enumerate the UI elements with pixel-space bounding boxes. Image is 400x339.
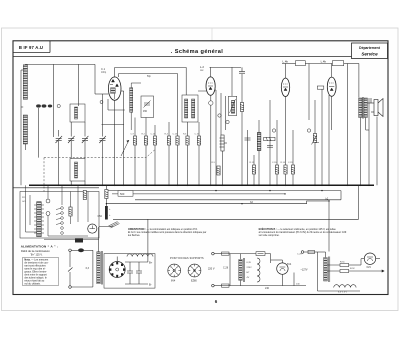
contact C b — [61, 212, 64, 215]
L1c coil — [75, 162, 78, 178]
V4 electrodes — [329, 83, 334, 91]
tone resistor R24 — [317, 86, 324, 89]
resistor R30 — [83, 191, 86, 200]
terminal E1 — [69, 249, 72, 252]
L2a top lead — [131, 83, 141, 130]
filter choke CH1 — [127, 254, 153, 257]
wire top of IF stage — [210, 67, 243, 185]
wire x329 down to PSU — [328, 201, 330, 252]
label box on heater bus — [118, 191, 133, 197]
svg-text:R.52: R.52 — [350, 268, 355, 270]
fuse F4 — [308, 250, 315, 253]
switch feed wires — [26, 185, 100, 239]
Nota paragraph — [24, 259, 49, 286]
rectifier tube V6 — [277, 263, 288, 274]
cap C41 — [46, 199, 50, 203]
rectifier socket U1 — [109, 262, 125, 278]
padder box with trimmers "450" — [141, 96, 154, 118]
contact C e — [61, 227, 64, 230]
T5 core — [329, 257, 330, 283]
V3 electrodes — [283, 84, 288, 91]
svg-text:Service: Service — [361, 51, 378, 56]
mains wires — [214, 254, 294, 286]
tone pot R26 with arrow — [312, 134, 320, 145]
resistor R3 column — [153, 125, 156, 185]
fold mark top center — [211, 28, 213, 41]
oscillator coil L2a — [130, 88, 133, 113]
terminal E2 — [69, 286, 72, 289]
terminal P2 — [212, 284, 215, 287]
resistor R20 horizontal — [264, 137, 275, 140]
svg-text:nul du châssis.: nul du châssis. — [24, 283, 40, 286]
dial cord to switch — [43, 158, 45, 192]
title block: model box "B IF 97 A.U" — [49, 41, 51, 53]
stub labels — [296, 254, 302, 286]
lamp wires — [70, 250, 93, 287]
T4 winding labels — [247, 262, 253, 279]
drawing frame border — [13, 41, 388, 295]
heater winding L6 — [334, 285, 356, 288]
AVC bus — [135, 199, 341, 201]
switch-to-eye connector — [75, 239, 83, 243]
T2 trim arrow — [230, 99, 236, 113]
trimmer CV3 — [57, 104, 60, 107]
trimmer CV2 — [42, 104, 47, 107]
svg-text:. Schéma général: . Schéma général — [171, 49, 223, 55]
terminal P1 — [212, 252, 215, 255]
pin marker m1 — [218, 114, 221, 117]
IF transformer T1 box — [182, 95, 198, 122]
resistor R10 — [240, 103, 243, 112]
svg-text:sur tube comprimé.: sur tube comprimé. — [259, 234, 280, 237]
resistor R15 column — [252, 155, 255, 185]
wire x270 — [269, 100, 271, 185]
contact C c — [61, 217, 64, 220]
ORIENTATION note text — [128, 228, 207, 237]
switch wafer bar S1 — [34, 202, 44, 237]
svg-text:450: 450 — [143, 110, 148, 113]
output transformer T3 — [359, 97, 368, 119]
transformer core lines — [101, 251, 102, 285]
switch arrow on gang line — [121, 140, 129, 156]
heater bus 1 — [107, 190, 341, 192]
svg-text:6V4: 6V4 — [367, 266, 372, 269]
V2 pin circle marker — [209, 101, 213, 105]
thermistor — [99, 222, 120, 229]
magic eye tube V5 — [88, 224, 97, 233]
coil inside box — [75, 107, 78, 119]
power transformer T4 primary — [239, 259, 242, 280]
gang coupling dashed line — [44, 150, 155, 158]
contact C f — [61, 232, 64, 235]
B+ wires — [117, 219, 148, 284]
resistor R41 — [340, 270, 349, 273]
ground symbol at tube1 — [100, 101, 103, 104]
T2 coil — [231, 101, 234, 114]
heater bus drop — [340, 191, 342, 200]
tuning gang CV-C — [82, 136, 89, 143]
svg-text:PO: PO — [22, 197, 25, 199]
V2 electrodes — [208, 83, 213, 90]
loudspeaker LS — [367, 98, 383, 117]
resistor R2 column — [144, 118, 147, 186]
autotransformer winding — [97, 252, 100, 284]
resistor R13 column — [217, 166, 220, 175]
pin marker m3 — [307, 129, 310, 132]
ferrite antenna coil L1 — [23, 65, 27, 144]
rectifier section box — [104, 254, 155, 289]
socket view S-B — [188, 264, 201, 277]
wires caps to bus — [59, 94, 103, 185]
rectifier tube V7 — [364, 253, 375, 264]
svg-text:Débit de la combinaison: Débit de la combinaison — [21, 249, 50, 253]
V2 cathode wire — [211, 90, 226, 185]
AF line top — [282, 64, 359, 79]
resistor R18 column — [291, 130, 294, 185]
resistor R1 column — [133, 118, 136, 186]
wires to rectifier V7 — [349, 259, 380, 271]
pin marker m4 — [226, 120, 229, 123]
trimmer in padder box — [143, 101, 151, 114]
detector coil L3 (dark) — [257, 133, 261, 151]
svg-text:C54: C54 — [98, 215, 103, 218]
127V wires — [304, 252, 360, 291]
resistor R17 column — [284, 96, 287, 185]
svg-text:6,3 V 4 V: 6,3 V 4 V — [338, 292, 348, 294]
svg-text:6V4: 6V4 — [171, 280, 176, 283]
tube V3 EABC80 envelope — [281, 78, 289, 96]
T5 taps — [327, 265, 340, 271]
fuse F3 on top — [256, 252, 265, 256]
keyboard switch box — [20, 192, 99, 239]
V6 anode wire — [281, 262, 283, 264]
T4 core — [243, 258, 244, 282]
tuning gang CV-B — [68, 136, 75, 143]
electrolytic C50 — [105, 185, 111, 219]
junction dots on chassis bus — [58, 185, 370, 187]
contact arrows — [56, 208, 61, 224]
pilot lamp LP — [78, 248, 84, 252]
cap C22 — [267, 146, 273, 148]
Nota box — [23, 257, 58, 286]
svg-text:100p: 100p — [101, 72, 107, 74]
svg-text:B-: B- — [149, 283, 152, 287]
T1 secondary coil — [192, 99, 195, 118]
svg-text:B IF 97 A.U: B IF 97 A.U — [19, 45, 43, 50]
fuse F2 — [222, 284, 230, 287]
coupling cap C24 box — [296, 61, 306, 66]
resistor R31 — [69, 207, 72, 216]
T3 connection wires — [361, 118, 370, 186]
svg-text:les flèches.: les flèches. — [128, 234, 141, 237]
svg-text:500: 500 — [120, 192, 125, 196]
resistor R16 column — [275, 120, 278, 185]
wire C50 to mains transformer — [98, 227, 100, 252]
filter cap C51 — [127, 262, 133, 284]
svg-text:B+: B+ — [149, 261, 153, 265]
wire T1 to V2 grid — [198, 90, 206, 92]
svg-text:“B+” 125 V.: “B+” 125 V. — [30, 253, 43, 256]
contact C d — [61, 222, 64, 225]
resistor value labels row — [131, 134, 294, 165]
L3 leads — [258, 120, 260, 185]
resistor R33 above C50 — [105, 190, 108, 199]
svg-text:L.4b: L.4b — [283, 60, 289, 64]
volume potentiometer P1 — [220, 135, 228, 151]
tuning gang CV-D — [99, 136, 106, 143]
wire into V1 grid top — [95, 68, 186, 186]
autotransformer T5 winding — [324, 258, 328, 282]
capacitor C9 — [239, 67, 245, 73]
svg-text:L.2: L.2 — [200, 65, 204, 69]
inter-section stub wires — [294, 252, 306, 286]
HT bus — [107, 201, 329, 204]
cap C42 — [46, 212, 50, 216]
EXECUTION B note text — [259, 228, 347, 237]
resistor R7 column — [197, 122, 200, 185]
on/off switch I1 — [68, 268, 73, 272]
T3 primary return dot — [360, 185, 362, 187]
svg-text:C.28: C.28 — [223, 267, 229, 270]
svg-text:POSITION DES SUPPORTS: POSITION DES SUPPORTS — [170, 258, 204, 260]
antenna wires — [21, 64, 95, 185]
svg-text:ALIMENTATION “ A ” :: ALIMENTATION “ A ” : — [21, 245, 59, 249]
V1 electrodes — [110, 79, 119, 99]
svg-text:R.51: R.51 — [340, 262, 345, 264]
chassis ground bus — [29, 184, 374, 186]
coupling cap C26 box — [332, 61, 343, 66]
svg-text:L.4b: L.4b — [321, 60, 327, 64]
svg-text:GO: GO — [22, 201, 26, 203]
tuning gang CV-A — [56, 136, 63, 143]
junction dots on aux buses — [106, 190, 330, 204]
AF coupling caps row — [245, 130, 251, 185]
tube V2 EF89 envelope — [206, 77, 215, 95]
terminal P3 — [301, 251, 304, 254]
svg-text:C.29: C.29 — [297, 254, 302, 256]
filter cap C52 — [136, 262, 142, 284]
trimmer CV1 — [36, 104, 41, 107]
svg-text:Département: Département — [359, 46, 381, 50]
svg-text:C.1: C.1 — [101, 67, 106, 71]
svg-text:EZ80: EZ80 — [191, 280, 197, 283]
arrow +HT — [380, 270, 384, 272]
svg-text:240: 240 — [265, 287, 270, 290]
resistor R4 column — [167, 122, 170, 185]
service dept box — [352, 43, 388, 59]
fuse F1 — [222, 252, 230, 255]
pin marker m2 — [272, 129, 275, 132]
output stage wires — [309, 64, 377, 186]
resistor R6 column — [186, 122, 189, 185]
coupling box L1b — [70, 104, 85, 122]
resistor R40 — [340, 264, 349, 267]
svg-text:225V: 225V — [247, 267, 253, 269]
tube V4 EL84 envelope — [327, 77, 336, 96]
T1 primary coil — [185, 99, 188, 118]
title band line — [13, 56, 388, 58]
tube V1 ECH81 envelope — [108, 77, 121, 100]
IF transformer T2 box — [228, 96, 236, 115]
heater return line left — [14, 187, 100, 189]
svg-text:6,3V: 6,3V — [247, 262, 252, 264]
resistor R5 column — [176, 122, 179, 185]
svg-text:220 V: 220 V — [208, 268, 215, 271]
svg-text:6V4: 6V4 — [287, 263, 292, 266]
svg-text:~127V: ~127V — [301, 269, 308, 272]
contact C a — [61, 207, 64, 210]
socket view S-A — [168, 264, 181, 277]
B+ return bus — [113, 185, 358, 219]
heater bus 2 — [112, 193, 285, 195]
oscillator coil box L1c — [70, 159, 85, 182]
T4 secondary loops — [257, 258, 260, 282]
